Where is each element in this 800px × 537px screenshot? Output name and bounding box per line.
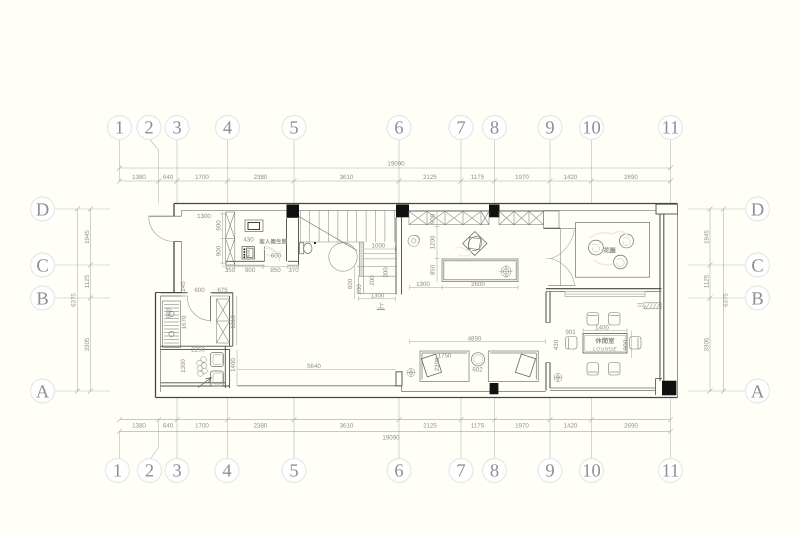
guest bathroom right wall below column [287, 218, 299, 265]
svg-text:430: 430 [243, 237, 254, 244]
svg-text:D: D [751, 200, 764, 220]
interior dim lines guest bath bottom row [222, 265, 299, 270]
svg-text:1: 1 [115, 119, 124, 139]
stair dim 1300 bottom [358, 297, 395, 302]
lounge table [583, 334, 627, 353]
sill line under stub [544, 227, 561, 229]
svg-text:8: 8 [490, 462, 499, 482]
bottom wall inner lines with step [238, 386, 546, 392]
grid bubbles right D C B A [746, 197, 770, 403]
stair dim 1000 [364, 247, 396, 252]
door stop dot [314, 242, 316, 244]
living flower symbol [407, 369, 415, 377]
svg-text:1: 1 [113, 462, 122, 482]
grid leader lines left [53, 209, 111, 391]
svg-text:LOUNGE: LOUNGE [593, 347, 617, 353]
grid bubble numbers bottom [113, 462, 680, 482]
lounge floor inner line [550, 388, 656, 391]
grid leader lines bottom [120, 398, 671, 461]
stair upper flight treads [299, 211, 395, 243]
corridor dim 5640 [238, 368, 397, 370]
lounge hatch threshold [638, 303, 662, 309]
svg-text:B: B [751, 289, 763, 309]
grid bubbles left D C B A [31, 197, 55, 403]
svg-text:901: 901 [565, 329, 576, 336]
lounge dim 1400 [583, 328, 627, 333]
round side table [471, 353, 484, 366]
corner outline around grid11 column [656, 379, 663, 395]
wall pier at bottom of living room [396, 372, 402, 386]
left wall upper part (beside entry door) [173, 204, 175, 293]
counter dim line 1300/2600 [410, 285, 519, 290]
svg-text:2380: 2380 [254, 174, 268, 181]
svg-text:5: 5 [289, 462, 298, 482]
guest bathroom door leaf [264, 247, 266, 262]
svg-text:7: 7 [456, 462, 465, 482]
entry door leaf [149, 215, 174, 217]
svg-text:602: 602 [472, 367, 483, 374]
svg-text:1300: 1300 [371, 292, 385, 299]
storage hatch cabinet [217, 299, 230, 343]
svg-text:5: 5 [289, 119, 298, 139]
svg-text:300: 300 [383, 267, 390, 278]
top segment dim line [117, 179, 673, 184]
wall stub above double door [544, 211, 559, 228]
laundry room bottom wall band [161, 383, 230, 386]
svg-text:9: 9 [545, 119, 554, 139]
svg-text:675: 675 [217, 287, 228, 294]
window mullion band segment B (grid8-stub) [499, 211, 544, 224]
svg-text:B: B [36, 289, 48, 309]
svg-text:1310: 1310 [230, 315, 237, 329]
living vertical dim chain 900/1200/850 [435, 211, 440, 282]
svg-text:19090: 19090 [382, 435, 400, 442]
column at grid 11 bottom (black) [662, 381, 676, 396]
svg-text:1125: 1125 [84, 274, 91, 288]
top exterior wall outer line [174, 203, 678, 205]
lounge top wall [546, 288, 662, 290]
storage rooms right wall [225, 293, 233, 388]
bottom exterior wall outer line [156, 397, 678, 399]
svg-text:1700: 1700 [195, 174, 209, 181]
svg-text:9: 9 [545, 462, 554, 482]
lounge left wall double with opening [546, 292, 550, 391]
svg-text:1300: 1300 [197, 213, 211, 220]
svg-text:2: 2 [144, 119, 153, 139]
closet cross dots [169, 311, 174, 336]
svg-text:C: C [751, 256, 763, 276]
laundry bathroom fixture upper [211, 353, 224, 367]
grid bubble numbers top [115, 119, 680, 139]
svg-text:A: A [751, 382, 765, 402]
left segment dim texts [84, 230, 91, 352]
stair dim 600 rotated [354, 267, 356, 299]
svg-text:1400: 1400 [595, 325, 609, 332]
storage dim 1310 rotated [236, 296, 238, 345]
svg-text:6375: 6375 [71, 293, 78, 307]
left segment dim line [88, 207, 93, 394]
svg-text:1420: 1420 [564, 174, 578, 181]
svg-text:2380: 2380 [254, 423, 268, 430]
svg-text:休閒室: 休閒室 [594, 337, 615, 345]
double door top connector [560, 227, 575, 229]
top overall dim line 19090 [117, 166, 673, 171]
svg-text:350: 350 [225, 267, 236, 274]
svg-text:3610: 3610 [340, 174, 354, 181]
double door bottom connector [548, 285, 576, 287]
svg-text:2: 2 [145, 462, 154, 482]
stair lower flight treads [357, 254, 395, 294]
svg-text:900: 900 [245, 267, 256, 274]
svg-text:6: 6 [394, 462, 403, 482]
svg-text:640: 640 [163, 174, 174, 181]
living room ceiling fan symbol [408, 235, 420, 246]
grid leader lines right [688, 209, 748, 391]
svg-text:900: 900 [430, 213, 437, 224]
svg-text:1945: 1945 [703, 230, 710, 244]
svg-text:400: 400 [245, 247, 252, 258]
garden plant circle top right [620, 234, 634, 248]
svg-text:4: 4 [222, 462, 231, 482]
right segment dim texts [703, 230, 710, 352]
storage dim 675 [213, 293, 232, 295]
arrow in laundry [198, 378, 212, 388]
lounge chair left [566, 337, 578, 350]
svg-text:900: 900 [215, 220, 222, 231]
top wall inner line [182, 209, 657, 211]
right structural wall double line [660, 214, 664, 381]
counter sink flower symbol [500, 265, 513, 278]
left wall step at grid B [156, 292, 182, 294]
svg-text:2398: 2398 [434, 357, 441, 371]
plant symbol in laundry [197, 357, 208, 377]
svg-text:245: 245 [180, 281, 187, 292]
guest bath hatch cabinet strip [226, 212, 235, 265]
column at grid 5 (black) [287, 205, 300, 218]
bottom segment dim line [117, 417, 673, 422]
right sofa [488, 351, 538, 382]
garden room box [576, 222, 650, 277]
guest bath counter [245, 220, 263, 232]
lounge dim 900 rotated [631, 331, 633, 358]
svg-text:200: 200 [369, 275, 376, 286]
column at grid 6 (black) [396, 205, 409, 218]
right segment dim line [708, 207, 713, 394]
svg-text:1125: 1125 [703, 274, 710, 288]
svg-text:11: 11 [662, 462, 680, 482]
right sofa pillow [515, 354, 535, 377]
svg-text:2690: 2690 [624, 174, 638, 181]
top segment dim texts [132, 174, 638, 181]
svg-text:370: 370 [288, 267, 299, 274]
stove knobs dots [243, 248, 245, 258]
lounge chair top-left [587, 313, 599, 326]
stair landing circle [329, 243, 357, 271]
guest bath watermark [263, 248, 282, 256]
svg-text:900: 900 [215, 245, 222, 256]
column at grid 8 top (black) [489, 205, 500, 218]
svg-text:1300: 1300 [180, 359, 187, 373]
svg-text:2690: 2690 [624, 423, 638, 430]
stair stringer strip [359, 242, 363, 276]
svg-text:客人衛生間: 客人衛生間 [258, 239, 287, 246]
guest bathroom door swing arc [265, 246, 280, 261]
svg-text:10: 10 [582, 462, 601, 482]
svg-text:200: 200 [356, 284, 363, 295]
grid bubbles top row 1-11 [108, 116, 683, 140]
svg-text:850: 850 [430, 264, 437, 275]
guest bathroom bottom wall with door opening [226, 260, 299, 262]
svg-text:4890: 4890 [468, 335, 482, 342]
svg-text:6: 6 [394, 119, 403, 139]
svg-text:6375: 6375 [723, 293, 730, 307]
lounge chair top-right [609, 313, 621, 326]
svg-text:3: 3 [172, 462, 181, 482]
lounge chair right [630, 337, 642, 350]
svg-text:600: 600 [271, 252, 282, 259]
svg-text:2600: 2600 [471, 281, 485, 288]
svg-text:1700: 1700 [195, 423, 209, 430]
garden plant circle left [589, 240, 604, 255]
laundry bathroom fixture lower [211, 371, 224, 386]
grid bubble letters left [36, 200, 50, 402]
svg-text:花園: 花園 [603, 247, 615, 255]
lounge chair bottom-left [587, 363, 599, 376]
svg-text:7: 7 [456, 119, 465, 139]
bottom segment dim texts [132, 423, 638, 430]
svg-text:3: 3 [172, 119, 181, 139]
toilet under stairs [300, 243, 312, 254]
window mullion band segment A (grid6-grid8) [409, 211, 489, 224]
double door plane line [559, 228, 561, 285]
svg-text:600: 600 [166, 307, 173, 318]
guest bath stove unit [242, 247, 254, 259]
svg-text:10: 10 [582, 119, 601, 139]
lounge chair bottom-right [609, 363, 621, 376]
svg-text:4: 4 [223, 119, 232, 139]
storage closet cabinet with shelves [163, 301, 181, 348]
svg-text:上: 上 [378, 302, 385, 310]
garden plant circle bottom [614, 255, 628, 269]
svg-text:8: 8 [490, 119, 499, 139]
svg-text:5640: 5640 [307, 363, 321, 370]
svg-text:3610: 3610 [340, 423, 354, 430]
bottom overall dim line 19090 [117, 429, 673, 434]
entry door opening jamb lines [174, 216, 182, 241]
laundry dim 1400 rotated [236, 349, 238, 385]
svg-text:1670: 1670 [181, 315, 188, 329]
stair break diagonal [299, 217, 357, 251]
guest bath vertical dim line [220, 212, 225, 265]
svg-text:850: 850 [270, 267, 281, 274]
right overall dim line 6375 [721, 207, 726, 394]
svg-text:3305: 3305 [703, 337, 710, 351]
svg-text:1970: 1970 [515, 174, 529, 181]
svg-text:1945: 1945 [84, 230, 91, 244]
svg-text:D: D [36, 200, 49, 220]
lounge window band [565, 292, 645, 297]
living dim 4890 [410, 339, 546, 344]
grid leader lines top [120, 138, 671, 204]
living room watermark [455, 247, 474, 256]
svg-text:2250: 2250 [191, 347, 205, 354]
column at grid 8 bottom (black) [490, 383, 499, 394]
grid bubble letters right [751, 200, 765, 402]
left sofa pillow [421, 354, 441, 377]
guest bath bottom dim texts [225, 267, 299, 274]
left overall dim line 6375 [75, 207, 80, 394]
stair right wall upper [396, 217, 402, 294]
garden watermark cloud [590, 231, 628, 264]
svg-text:3305: 3305 [84, 337, 91, 351]
svg-text:1970: 1970 [515, 423, 529, 430]
guest bath sink [248, 223, 260, 230]
entry door swing arc [149, 216, 174, 241]
svg-text:1300: 1300 [416, 281, 430, 288]
lounge flower symbol [554, 374, 562, 382]
svg-text:1175: 1175 [471, 423, 485, 430]
svg-text:600: 600 [347, 278, 354, 289]
storage room door swing arc [187, 296, 210, 321]
svg-text:1420: 1420 [564, 423, 578, 430]
svg-text:430: 430 [553, 339, 560, 350]
left exterior wall lower part [155, 293, 157, 398]
svg-text:A: A [36, 382, 50, 402]
svg-text:2125: 2125 [423, 423, 437, 430]
svg-text:640: 640 [163, 423, 174, 430]
double door swing arcs [547, 230, 575, 285]
svg-text:11: 11 [662, 119, 680, 139]
living room long counter [442, 259, 518, 282]
svg-text:1400: 1400 [230, 358, 237, 372]
svg-text:C: C [36, 256, 48, 276]
grid bubbles bottom row 1-11 [106, 459, 683, 483]
svg-text:1175: 1175 [471, 174, 485, 181]
svg-text:600: 600 [194, 287, 205, 294]
top-right header block [656, 204, 678, 214]
svg-text:1380: 1380 [132, 423, 146, 430]
svg-text:1000: 1000 [372, 243, 386, 250]
storage rooms top wall with door opening [161, 292, 233, 294]
svg-text:1380: 1380 [132, 174, 146, 181]
right exterior wall outer line [677, 204, 679, 398]
svg-text:900: 900 [623, 339, 630, 350]
left sofa [420, 351, 469, 382]
storage rooms middle wall [161, 346, 233, 349]
svg-text:19090: 19090 [387, 161, 405, 168]
decorative diamond lamp [463, 232, 487, 256]
svg-text:1200: 1200 [430, 235, 437, 249]
svg-text:2125: 2125 [423, 174, 437, 181]
storage room door leaf [210, 296, 212, 322]
